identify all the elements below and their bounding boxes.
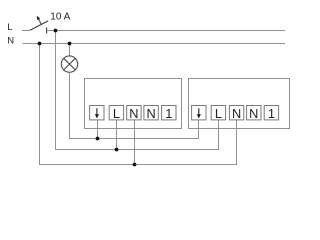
terminal U1 pin ↓ [90,106,104,120]
svg-text:1: 1 [268,106,275,121]
svg-text:N: N [129,106,138,121]
svg-text:L: L [7,22,12,33]
svg-text:10 A: 10 A [50,12,70,23]
lamp E1 [61,56,77,72]
terminal U1 pin 1 [162,106,176,122]
node N tap left [38,42,42,46]
wire U1 N-terminal drop [134,120,136,165]
svg-text:N: N [146,106,155,121]
node U1 N junction [133,163,137,167]
terminal U2 pin N (first) [229,106,243,122]
wire N drop to N terminals [40,44,237,165]
wire lamp return to arrow terminals [70,72,199,138]
svg-text:L: L [215,106,222,121]
device box U2 [189,79,290,129]
device box U1 [85,79,182,129]
switch S1 blade [30,21,48,30]
terminal U2 pin N (second) [247,106,261,122]
node U1 L junction [115,148,119,152]
terminal U1 pin L [109,106,123,122]
wire U1 L-terminal drop [116,120,118,150]
wire switched-L drop to L terminals [56,31,219,150]
svg-text:L: L [113,106,120,121]
terminal U2 pin ↓ [192,106,206,120]
terminal U2 pin 1 [264,106,278,122]
node switched-L tap [54,29,58,33]
wire lamp feed from N [69,44,71,57]
node N tap lamp [68,42,72,46]
svg-text:N: N [232,106,241,121]
wire N line [23,43,286,45]
wire L line [47,30,285,32]
svg-text:1: 1 [165,106,172,121]
node U1 arrow junction [96,137,100,141]
wire L line left stub [22,29,30,32]
terminal U2 pin L [211,106,225,122]
wire U1 arrow-terminal drop [97,120,99,139]
switch fixed contact tick [46,27,48,33]
svg-text:N: N [249,106,258,121]
terminal U1 pin N (second) [144,106,158,122]
svg-text:N: N [7,36,14,47]
terminal U1 pin N (first) [127,106,141,122]
switch actuation arrow [37,16,41,24]
